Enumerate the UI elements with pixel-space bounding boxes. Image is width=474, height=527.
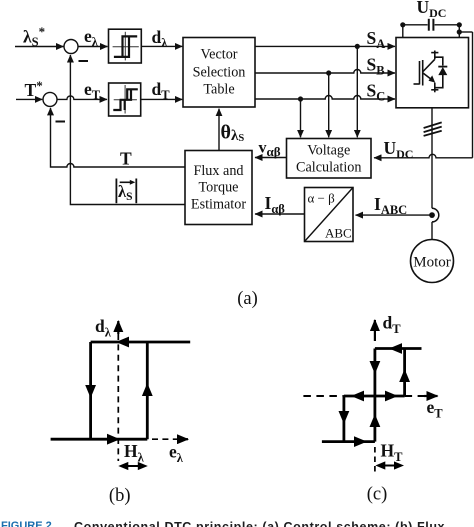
IGBT emitter diagonal with arrow [423, 73, 432, 80]
loop b left vertical with down arrow [89, 342, 92, 439]
minus sign torque junction [56, 121, 66, 123]
svg-text:Estimator: Estimator [191, 197, 246, 213]
IGBT gate bars [419, 61, 421, 85]
svg-text:Conventional DTC principle: (a: Conventional DTC principle: (a) Control … [74, 520, 445, 527]
wire DC rail left stub [402, 25, 404, 38]
axis vertical arrow b [117, 321, 119, 334]
svg-text:Flux and: Flux and [193, 163, 243, 179]
wire S_A [255, 45, 395, 47]
svg-text:HT: HT [381, 441, 404, 465]
figure caption [1, 520, 445, 527]
svg-text:dT: dT [383, 313, 402, 337]
hysteresis comparator flux (two-level relay) [109, 29, 142, 63]
svg-text:ABC: ABC [325, 226, 352, 241]
freewheeling diode [438, 67, 447, 75]
svg-text:(a): (a) [237, 289, 258, 309]
svg-text:SC: SC [367, 81, 386, 104]
minus sign flux junction [79, 60, 89, 62]
node DC rail left [400, 22, 405, 27]
wire DC rail right stub [458, 25, 460, 38]
wire I_alphabeta to estimator [255, 213, 305, 215]
svg-text:SB: SB [367, 55, 385, 78]
IGBT collector lead and tick [435, 57, 443, 65]
svg-text:eT: eT [427, 397, 444, 421]
wire S_B drop to voltage calculation [328, 73, 330, 137]
H_lambda width arrow [124, 465, 142, 467]
svg-text:vαβ: vαβ [259, 140, 281, 160]
svg-text:dλ: dλ [95, 316, 112, 340]
wire DC sense down right edge [472, 32, 474, 158]
svg-text:T*: T* [25, 78, 43, 100]
wire torque error to hysteresis (hop over flux feedback) [57, 96, 107, 99]
IGBT collector diagonal [423, 59, 435, 71]
svg-text:UDC: UDC [417, 0, 447, 20]
svg-text:(b): (b) [109, 486, 131, 506]
IGBT emitter lead and tick [435, 75, 443, 88]
path c axis segment bottom-to-center with up arrow [373, 396, 376, 442]
label flux magnitude [116, 179, 136, 204]
svg-text:eλ: eλ [84, 26, 99, 49]
flux and torque estimator box [185, 151, 252, 225]
capacitor plates [428, 19, 430, 31]
svg-text:IABC: IABC [374, 194, 407, 217]
svg-text:Motor: Motor [413, 255, 451, 271]
wire flux magnitude feedback [70, 55, 185, 205]
svg-text:Vector: Vector [200, 47, 237, 63]
vector selection table box [183, 38, 255, 108]
svg-text:FIGURE 2.: FIGURE 2. [1, 520, 55, 527]
path c top line with left arrow [375, 347, 422, 350]
H_T width arrow [381, 465, 398, 467]
svg-text:T: T [120, 149, 132, 169]
path c axis segment top-to-center with down arrow [373, 349, 376, 397]
hysteresis comparator torque (three-level relay) [109, 83, 141, 116]
svg-text:(c): (c) [367, 485, 388, 505]
axis horizontal dashed b [152, 438, 177, 440]
wire DC sense to right edge [459, 31, 472, 33]
svg-text:UDC: UDC [384, 138, 414, 161]
node S_B junction [326, 70, 331, 75]
svg-text:Voltage: Voltage [307, 143, 350, 159]
svg-text:dT: dT [152, 79, 171, 102]
svg-text:SA: SA [367, 28, 386, 51]
svg-text:Table: Table [203, 82, 234, 98]
H_T dashed tick [374, 447, 376, 473]
svg-text:Iαβ: Iαβ [265, 193, 286, 216]
wire S_C (hops at S_B and S_A drops) [255, 96, 395, 100]
svg-text:Torque: Torque [199, 180, 239, 196]
wire inverter to motor [431, 108, 433, 209]
svg-text:λS: λS [118, 182, 133, 203]
three-phase slash marks [424, 122, 442, 135]
alpha-beta to ABC transform box [305, 188, 354, 242]
wire theta to table [218, 109, 220, 151]
wire d_T to table [141, 98, 183, 100]
node DC sense tap [457, 29, 462, 34]
svg-text:eT: eT [84, 79, 101, 102]
axis horizontal dashed left c [303, 395, 344, 397]
voltage calculation box [287, 139, 372, 179]
motor [411, 240, 454, 283]
path c right vertical with up arrow [403, 349, 406, 397]
summing junction torque [43, 92, 57, 106]
wire v_alphabeta to estimator [255, 157, 287, 159]
axis horizontal arrow b [177, 438, 188, 440]
axis vertical dashed b [117, 334, 119, 461]
svg-text:θλS: θλS [221, 122, 245, 145]
DC link capacitor rail [403, 19, 460, 31]
svg-text:Hλ: Hλ [124, 441, 145, 465]
wire torque reference input [16, 98, 42, 100]
wire T feedback (hop at flux feedback crossing) [51, 108, 186, 167]
wire S_C drop to voltage calculation [300, 99, 302, 137]
summing junction flux [64, 40, 78, 54]
path c bottom line with right arrow [322, 440, 375, 443]
axis horizontal arrow c [424, 395, 438, 397]
path c left vertical with down arrow [342, 396, 345, 442]
wire d_lambda to table [141, 45, 182, 47]
wire flux error to hysteresis [78, 46, 108, 48]
wire U_DC sense to voltage calculation (hop at motor line) [374, 154, 473, 158]
node S_C junction [298, 96, 303, 101]
current sensor [429, 208, 439, 222]
wire I_ABC from sensor to transform [356, 214, 432, 216]
hysteresis loop b top line with left arrow [91, 341, 191, 344]
axis vertical arrow c [374, 320, 376, 341]
svg-text:Calculation: Calculation [296, 160, 361, 176]
wire sensor to motor [431, 222, 433, 240]
node S_A junction [355, 44, 360, 49]
path c center right segment with right arrow [375, 395, 405, 398]
wire S_B (hop at S_A drop) [255, 70, 395, 74]
loop b bottom line with right arrow [51, 438, 148, 441]
svg-text:eλ: eλ [169, 442, 184, 466]
axis horizontal dashed right c [405, 395, 424, 397]
svg-text:Selection: Selection [193, 65, 246, 81]
svg-text:α − β: α − β [308, 191, 336, 206]
svg-text:λS*: λS* [23, 24, 45, 49]
wire flux reference input [15, 46, 64, 48]
node DC rail right [457, 22, 462, 27]
inverter box with IGBT [396, 38, 469, 108]
wire S_A drop to voltage calculation [356, 46, 358, 137]
loop b right vertical with up arrow [146, 342, 149, 439]
path c center left segment with left arrow [344, 395, 375, 398]
